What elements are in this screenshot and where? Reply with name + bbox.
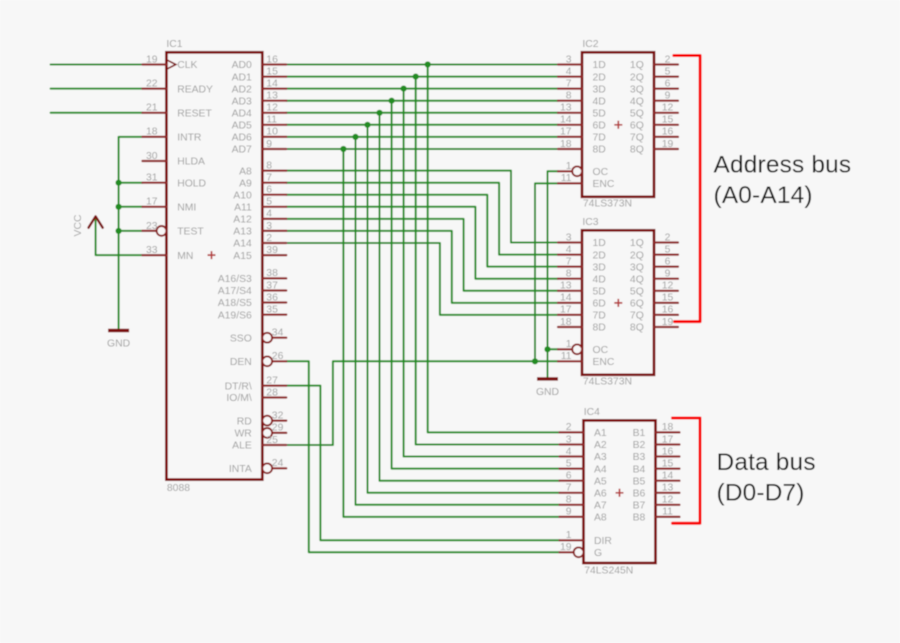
junction TEST <box>116 228 122 234</box>
svg-text:15: 15 <box>662 115 674 126</box>
svg-text:6Q: 6Q <box>630 299 644 310</box>
svg-text:7Q: 7Q <box>630 311 644 322</box>
wire READY input (pin 22) <box>51 88 143 90</box>
svg-text:DIR: DIR <box>594 536 612 547</box>
svg-text:28: 28 <box>266 387 278 398</box>
svg-text:A5: A5 <box>594 476 607 487</box>
wire A8 (8088 to 74LS373N 1D) <box>286 171 558 243</box>
svg-text:23: 23 <box>146 221 158 232</box>
svg-text:5D: 5D <box>593 109 606 120</box>
svg-text:8D: 8D <box>593 323 606 334</box>
junction AD7 <box>340 146 346 152</box>
svg-text:7D: 7D <box>593 311 606 322</box>
wire VCC to MN (pin 33) <box>96 217 143 256</box>
wire HOLD branch <box>119 182 143 184</box>
svg-text:A15: A15 <box>233 251 252 262</box>
wire A14 (8088 to 74LS373N 7D) <box>286 243 558 315</box>
svg-text:4D: 4D <box>593 96 606 107</box>
svg-text:17: 17 <box>560 127 572 138</box>
svg-text:(A0-A14): (A0-A14) <box>714 182 813 209</box>
svg-text:37: 37 <box>266 280 278 291</box>
svg-text:SSO: SSO <box>230 333 252 344</box>
svg-text:29: 29 <box>272 423 284 434</box>
svg-text:ALE: ALE <box>232 441 252 452</box>
svg-text:31: 31 <box>146 173 158 184</box>
svg-text:A6: A6 <box>594 488 607 499</box>
IC1 body <box>166 52 262 479</box>
svg-text:32: 32 <box>272 410 284 421</box>
IC1 clock input triangle <box>166 60 175 70</box>
wire AD2 tap down to 74LS245N A3 <box>404 89 560 457</box>
IC3 right pin stubs <box>654 243 678 328</box>
svg-text:19: 19 <box>662 139 674 150</box>
svg-text:B1: B1 <box>633 428 646 439</box>
wire AD7 (8088 to 74LS373N 8D) <box>286 148 558 150</box>
wire A9 (8088 to 74LS373N 2D) <box>286 183 558 255</box>
svg-text:VCC: VCC <box>73 214 84 236</box>
svg-text:2: 2 <box>266 233 272 244</box>
svg-text:4: 4 <box>566 66 572 77</box>
wire AD7 tap down to 74LS245N A8 <box>343 149 559 517</box>
junction AD3 <box>389 98 395 104</box>
svg-text:38: 38 <box>266 268 278 279</box>
wire DT/R (pin 27) to 74LS245N DIR (pin 1) <box>286 386 559 541</box>
wire DEN (pin 26) to 74LS245N G (pin 19) <box>286 361 559 552</box>
IC3 left pin stubs <box>558 243 582 362</box>
svg-text:2: 2 <box>665 232 671 243</box>
svg-text:A7: A7 <box>594 501 607 512</box>
wire INTR/HOLD/NMI/TEST net to GND <box>119 137 143 331</box>
svg-text:26: 26 <box>272 351 284 362</box>
IC1 value marker <box>208 251 216 259</box>
svg-text:7D: 7D <box>593 133 606 144</box>
svg-text:1Q: 1Q <box>630 238 644 249</box>
junction AD2 <box>401 86 407 92</box>
svg-text:14: 14 <box>560 115 572 126</box>
svg-text:A9: A9 <box>239 178 252 189</box>
svg-text:DEN: DEN <box>230 357 252 368</box>
IC2 inversion bubble <box>572 166 582 176</box>
IC2 body <box>558 39 678 209</box>
IC2 value marker <box>614 121 622 129</box>
svg-text:16: 16 <box>266 54 278 65</box>
svg-text:12: 12 <box>662 495 674 506</box>
svg-text:AD6: AD6 <box>232 133 252 144</box>
junction AD6 <box>352 134 358 140</box>
svg-text:24: 24 <box>272 458 284 469</box>
svg-text:5: 5 <box>266 197 272 208</box>
svg-text:6: 6 <box>665 78 671 89</box>
svg-text:IC4: IC4 <box>584 407 600 418</box>
svg-text:18: 18 <box>560 139 572 150</box>
svg-text:3Q: 3Q <box>630 262 644 273</box>
svg-text:9: 9 <box>665 91 671 102</box>
svg-text:B5: B5 <box>633 476 646 487</box>
svg-text:34: 34 <box>272 328 284 339</box>
svg-text:AD0: AD0 <box>232 60 252 71</box>
svg-text:4D: 4D <box>593 274 606 285</box>
svg-text:2D: 2D <box>593 250 606 261</box>
wire NMI branch <box>119 206 143 208</box>
junction NMI <box>116 204 122 210</box>
svg-text:WR: WR <box>234 429 252 440</box>
wire AD2 (8088 to 74LS373N 3D) <box>286 88 558 90</box>
wire AD5 (8088 to 74LS373N 6D) <box>286 124 558 126</box>
svg-text:RD: RD <box>237 416 252 427</box>
svg-text:B6: B6 <box>633 488 646 499</box>
svg-text:NMI: NMI <box>177 203 196 214</box>
svg-text:OC: OC <box>593 345 609 356</box>
IC1 left pin stubs <box>142 65 166 256</box>
svg-text:B7: B7 <box>633 501 646 512</box>
svg-text:AD3: AD3 <box>232 96 252 107</box>
svg-text:6: 6 <box>266 185 272 196</box>
svg-text:13: 13 <box>662 483 674 494</box>
svg-text:ENC: ENC <box>593 357 615 368</box>
wire AD0 tap down to 74LS245N A1 <box>428 65 560 433</box>
svg-text:OC: OC <box>593 167 609 178</box>
wire RESET input (pin 21) <box>51 112 143 114</box>
wire A10 (8088 to 74LS373N 3D) <box>286 195 558 267</box>
svg-text:12: 12 <box>662 103 674 114</box>
svg-text:13: 13 <box>560 103 572 114</box>
svg-text:74LS245N: 74LS245N <box>584 566 633 577</box>
svg-text:G: G <box>594 548 602 559</box>
svg-text:A17/S4: A17/S4 <box>218 286 252 297</box>
svg-text:AD4: AD4 <box>232 109 252 120</box>
svg-text:READY: READY <box>177 84 213 95</box>
svg-text:A12: A12 <box>233 215 252 226</box>
VCC supply symbol <box>89 216 103 227</box>
ground symbol GND (near IC3) <box>537 377 558 380</box>
svg-text:11: 11 <box>561 173 572 184</box>
svg-text:MN: MN <box>177 251 193 262</box>
svg-text:10: 10 <box>266 127 278 138</box>
svg-text:17: 17 <box>146 197 158 208</box>
wire CLK input (pin 19) <box>51 64 143 66</box>
svg-text:2Q: 2Q <box>630 250 644 261</box>
IC3 inversion bubble <box>572 344 582 354</box>
svg-text:A3: A3 <box>594 452 607 463</box>
svg-text:7: 7 <box>566 256 572 267</box>
wire AD4 tap down to 74LS245N A5 <box>380 113 560 481</box>
wire AD1 (8088 to 74LS373N 2D) <box>286 76 558 78</box>
svg-text:GND: GND <box>536 387 559 398</box>
data bus bracket <box>673 418 701 523</box>
svg-text:74LS373N: 74LS373N <box>583 198 632 209</box>
wire AD6 tap down to 74LS245N A7 <box>356 137 560 505</box>
IC2 right pin stubs <box>654 65 678 150</box>
svg-text:AD5: AD5 <box>232 121 252 132</box>
wire AD5 tap down to 74LS245N A6 <box>368 125 560 493</box>
IC4 value marker <box>616 489 624 497</box>
svg-text:6: 6 <box>665 256 671 267</box>
svg-text:12: 12 <box>662 281 674 292</box>
svg-text:2: 2 <box>665 54 671 65</box>
junction AD5 <box>364 122 370 128</box>
svg-text:16: 16 <box>662 446 674 457</box>
wire A12 (8088 to 74LS373N 5D) <box>286 219 558 291</box>
svg-text:IC3: IC3 <box>582 217 598 228</box>
svg-text:3D: 3D <box>593 262 606 273</box>
wire A13 (8088 to 74LS373N 6D) <box>286 231 558 303</box>
IC1 inversion bubbles SSO DEN RD WR INTA <box>262 333 272 343</box>
svg-text:3: 3 <box>566 434 572 445</box>
svg-text:9: 9 <box>665 269 671 280</box>
svg-text:22: 22 <box>146 78 158 89</box>
junction ENC net <box>532 358 538 364</box>
svg-text:15: 15 <box>662 293 674 304</box>
svg-text:A16/S3: A16/S3 <box>218 274 252 285</box>
svg-text:A18/S5: A18/S5 <box>218 298 252 309</box>
svg-text:25: 25 <box>266 435 278 446</box>
svg-text:A8: A8 <box>239 166 252 177</box>
svg-text:9: 9 <box>566 507 572 518</box>
svg-text:7: 7 <box>566 78 572 89</box>
IC3 value marker <box>614 299 622 307</box>
svg-text:1D: 1D <box>593 238 606 249</box>
svg-text:A1: A1 <box>594 428 607 439</box>
svg-text:17: 17 <box>560 305 572 316</box>
svg-text:A10: A10 <box>233 190 252 201</box>
svg-text:8Q: 8Q <box>630 323 644 334</box>
svg-text:74LS373N: 74LS373N <box>583 376 632 387</box>
IC3 body <box>558 217 678 387</box>
wire TEST branch <box>119 230 143 232</box>
svg-text:1: 1 <box>566 339 572 350</box>
svg-text:5Q: 5Q <box>630 109 644 120</box>
IC2 left pin stubs <box>558 65 582 184</box>
svg-text:A2: A2 <box>594 440 607 451</box>
svg-text:9: 9 <box>266 139 272 150</box>
svg-text:RESET: RESET <box>177 109 212 120</box>
svg-text:3: 3 <box>266 221 272 232</box>
svg-text:3: 3 <box>566 54 572 65</box>
svg-text:13: 13 <box>560 281 572 292</box>
svg-text:1Q: 1Q <box>630 60 644 71</box>
svg-text:CLK: CLK <box>177 60 197 71</box>
svg-text:4Q: 4Q <box>630 96 644 107</box>
IC1 8088 CPU <box>142 39 286 494</box>
svg-text:Address bus: Address bus <box>714 152 852 179</box>
svg-text:5: 5 <box>665 244 671 255</box>
svg-text:21: 21 <box>146 103 158 114</box>
svg-text:3D: 3D <box>593 84 606 95</box>
svg-text:16: 16 <box>662 127 674 138</box>
svg-text:4: 4 <box>566 446 572 457</box>
svg-text:30: 30 <box>146 151 158 162</box>
svg-text:14: 14 <box>662 471 674 482</box>
svg-text:4: 4 <box>566 244 572 255</box>
junction HOLD <box>116 180 122 186</box>
svg-text:11: 11 <box>266 115 277 126</box>
ground symbol GND (left) <box>108 329 129 332</box>
svg-text:1: 1 <box>566 530 572 541</box>
wire A11 (8088 to 74LS373N 4D) <box>286 207 558 279</box>
address bus bracket <box>674 56 700 322</box>
svg-text:15: 15 <box>662 458 674 469</box>
svg-text:(D0-D7): (D0-D7) <box>717 480 805 507</box>
wire AD6 (8088 to 74LS373N 7D) <box>286 136 558 138</box>
svg-text:8D: 8D <box>593 145 606 156</box>
svg-text:2Q: 2Q <box>630 72 644 83</box>
svg-text:2: 2 <box>566 422 572 433</box>
svg-text:5: 5 <box>566 458 572 469</box>
svg-text:33: 33 <box>146 245 158 256</box>
svg-text:8Q: 8Q <box>630 145 644 156</box>
svg-text:6: 6 <box>566 471 572 482</box>
svg-text:A13: A13 <box>233 227 252 238</box>
junction OC net <box>544 346 550 352</box>
svg-text:4Q: 4Q <box>630 274 644 285</box>
svg-text:6D: 6D <box>593 121 606 132</box>
svg-text:6D: 6D <box>593 299 606 310</box>
svg-text:ENC: ENC <box>593 179 615 190</box>
svg-text:14: 14 <box>266 78 278 89</box>
svg-text:4: 4 <box>266 209 272 220</box>
svg-text:B8: B8 <box>633 513 646 524</box>
svg-text:A4: A4 <box>594 464 607 475</box>
svg-text:8: 8 <box>266 160 272 171</box>
IC1 right pin stubs <box>262 65 286 469</box>
svg-text:Data bus: Data bus <box>717 449 816 476</box>
wire AD3 tap down to 74LS245N A4 <box>392 101 560 469</box>
svg-text:8088: 8088 <box>167 483 190 494</box>
svg-text:AD1: AD1 <box>232 72 252 83</box>
svg-text:1: 1 <box>566 161 572 172</box>
svg-text:35: 35 <box>266 304 278 315</box>
svg-text:19: 19 <box>146 54 158 65</box>
svg-text:18: 18 <box>560 317 572 328</box>
svg-text:IC2: IC2 <box>582 39 598 50</box>
wire AD1 tap down to 74LS245N A2 <box>416 77 560 445</box>
IC1 TEST inversion bubble (pin 23) <box>157 226 167 236</box>
junction AD1 <box>413 74 419 80</box>
svg-text:17: 17 <box>662 434 674 445</box>
svg-text:B2: B2 <box>633 440 646 451</box>
svg-text:15: 15 <box>266 66 278 77</box>
wire OC net (IC2 pin1, IC3 pin1) to GND <box>548 171 559 379</box>
svg-text:8: 8 <box>566 269 572 280</box>
svg-text:16: 16 <box>662 305 674 316</box>
svg-text:19: 19 <box>662 317 674 328</box>
svg-text:6Q: 6Q <box>630 121 644 132</box>
svg-text:HLDA: HLDA <box>177 157 205 168</box>
svg-text:IC1: IC1 <box>166 39 182 50</box>
wire OC branch to IC3 pin 1 <box>548 348 559 350</box>
svg-text:AD2: AD2 <box>232 84 252 95</box>
svg-text:TEST: TEST <box>177 227 204 238</box>
svg-text:IO/M\: IO/M\ <box>226 393 252 404</box>
junction AD4 <box>376 110 382 116</box>
svg-text:13: 13 <box>266 91 278 102</box>
svg-text:2D: 2D <box>593 72 606 83</box>
svg-text:14: 14 <box>560 293 572 304</box>
svg-text:36: 36 <box>266 292 278 303</box>
svg-text:B3: B3 <box>633 452 646 463</box>
svg-text:19: 19 <box>560 542 572 553</box>
svg-text:AD7: AD7 <box>232 145 252 156</box>
svg-text:A8: A8 <box>594 513 607 524</box>
wire AD0 (8088 to 74LS373N 1D) <box>286 64 558 66</box>
svg-text:HOLD: HOLD <box>177 178 206 189</box>
svg-text:11: 11 <box>561 351 572 362</box>
svg-text:3Q: 3Q <box>630 84 644 95</box>
svg-text:12: 12 <box>266 103 278 114</box>
wire AD4 (8088 to 74LS373N 5D) <box>286 112 558 114</box>
svg-text:7: 7 <box>266 173 272 184</box>
IC4 G inversion bubble (pin 19) <box>574 547 584 557</box>
svg-text:INTA: INTA <box>229 464 252 475</box>
svg-text:7Q: 7Q <box>630 133 644 144</box>
svg-text:5Q: 5Q <box>630 287 644 298</box>
svg-text:8: 8 <box>566 91 572 102</box>
svg-text:18: 18 <box>146 127 158 138</box>
IC4 74LS245N data bus transceiver <box>560 407 680 576</box>
junction AD0 <box>425 61 431 67</box>
svg-text:11: 11 <box>662 507 673 518</box>
svg-text:DT/R\: DT/R\ <box>225 381 252 392</box>
wire ALE net to latch ENC pins <box>286 361 558 445</box>
wire ENC branch up to IC2 pin 11 <box>535 183 558 361</box>
svg-text:A14: A14 <box>233 239 252 250</box>
svg-text:5D: 5D <box>593 287 606 298</box>
svg-text:39: 39 <box>266 245 278 256</box>
svg-text:5: 5 <box>665 66 671 77</box>
wire AD3 (8088 to 74LS373N 4D) <box>286 100 558 102</box>
svg-text:18: 18 <box>662 422 674 433</box>
svg-text:27: 27 <box>266 375 278 386</box>
svg-text:GND: GND <box>107 339 130 350</box>
svg-text:A19/S6: A19/S6 <box>218 310 252 321</box>
svg-text:7: 7 <box>566 483 572 494</box>
IC4 left pin stubs <box>560 432 584 552</box>
svg-text:8: 8 <box>566 495 572 506</box>
svg-text:1D: 1D <box>593 60 606 71</box>
IC4 right pin stubs <box>656 432 680 517</box>
svg-text:A11: A11 <box>234 203 252 214</box>
svg-text:B4: B4 <box>633 464 646 475</box>
svg-text:INTR: INTR <box>177 133 202 144</box>
svg-text:3: 3 <box>566 232 572 243</box>
